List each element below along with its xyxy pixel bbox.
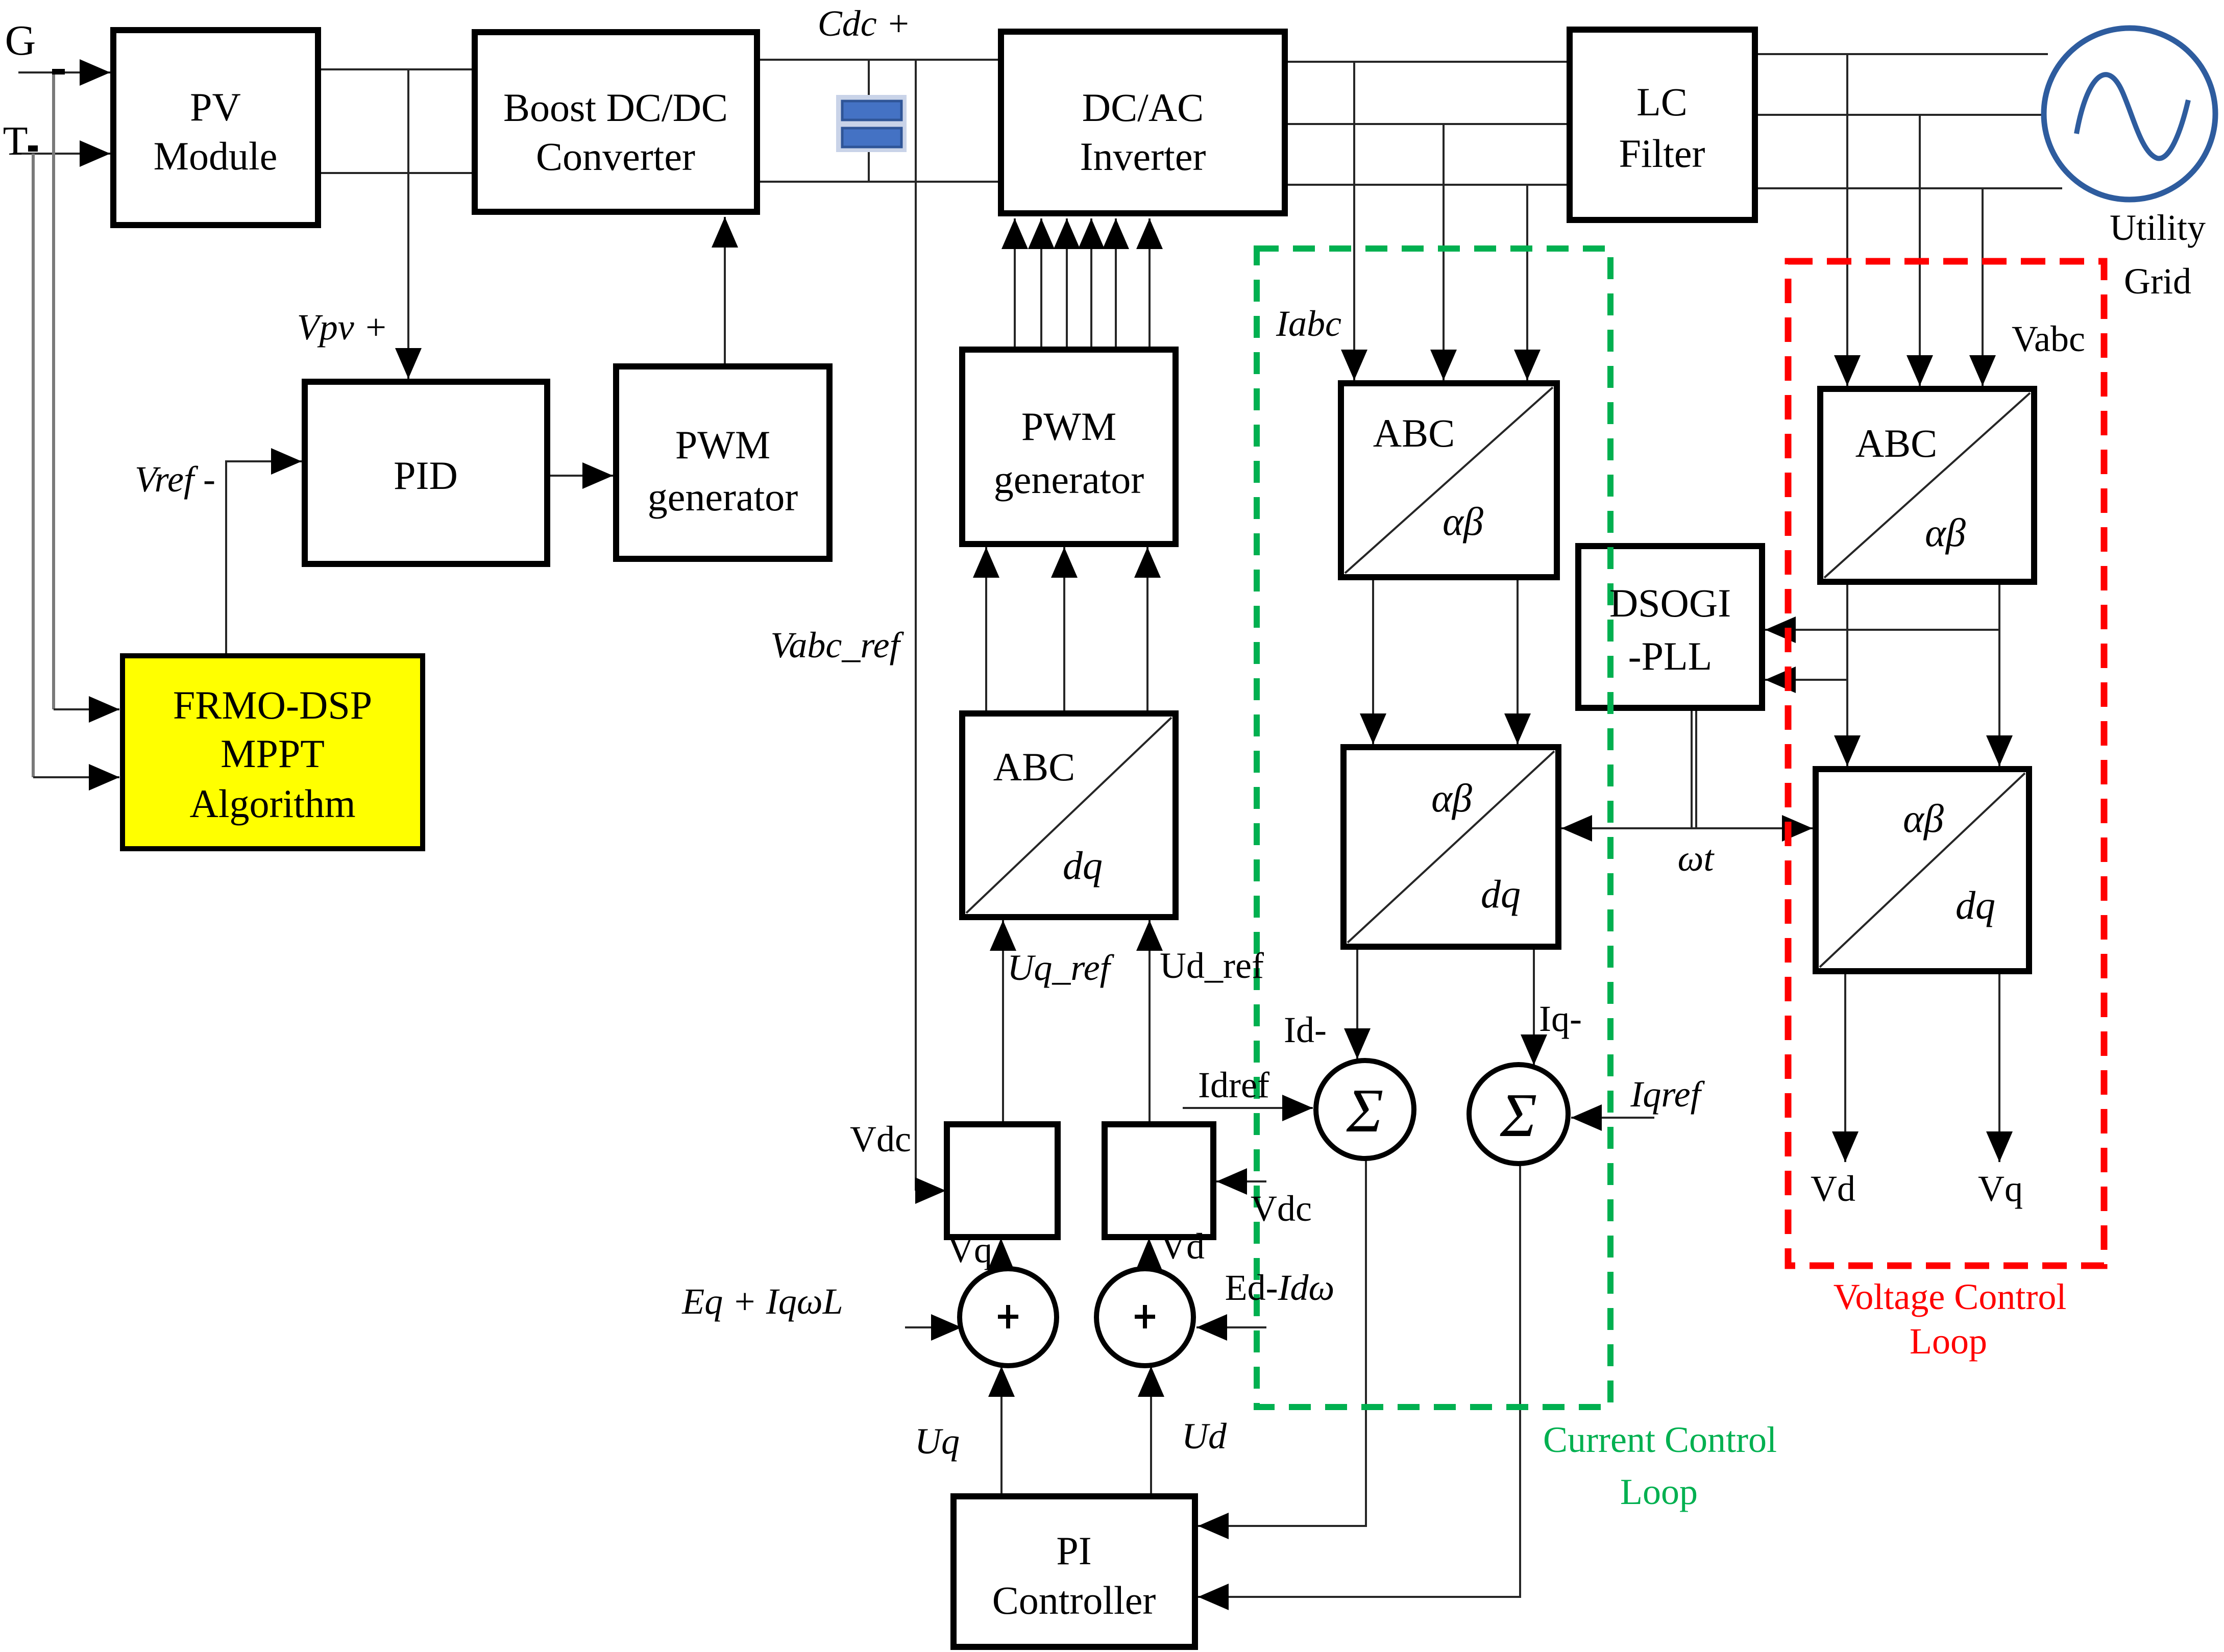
svg-text:LC: LC [1636, 80, 1688, 124]
svg-text:ABC: ABC [1855, 421, 1937, 465]
svg-text:Ud: Ud [1182, 1416, 1227, 1457]
svg-text:-PLL: -PLL [1628, 634, 1713, 678]
svg-text:Iqref: Iqref [1630, 1074, 1705, 1115]
svg-text:Converter: Converter [536, 134, 695, 179]
svg-text:Vq: Vq [947, 1229, 992, 1270]
svg-text:Loop: Loop [1910, 1321, 1987, 1362]
svg-text:Vq: Vq [1978, 1168, 2023, 1209]
svg-text:DC/AC: DC/AC [1082, 85, 1204, 130]
svg-text:αβ: αβ [1431, 776, 1472, 820]
svg-text:Eq + IqωL: Eq + IqωL [681, 1281, 843, 1322]
svg-text:Inverter: Inverter [1080, 134, 1206, 179]
svg-text:Vd: Vd [1811, 1168, 1855, 1209]
svg-text:Cdc +: Cdc + [818, 3, 911, 44]
svg-text:dq: dq [1956, 883, 1995, 927]
svg-text:FRMO-DSP: FRMO-DSP [173, 683, 372, 727]
svg-text:Boost DC/DC: Boost DC/DC [503, 85, 728, 130]
svg-text:DSOGI: DSOGI [1609, 581, 1731, 625]
svg-text:PV: PV [190, 85, 241, 129]
svg-text:Σ: Σ [1346, 1076, 1384, 1145]
svg-text:G: G [5, 17, 36, 64]
svg-text:Utility: Utility [2110, 207, 2206, 248]
svg-text:PWM: PWM [1021, 404, 1116, 449]
svg-text:Σ: Σ [1500, 1081, 1537, 1150]
svg-text:Vabc_ref: Vabc_ref [770, 625, 904, 665]
svg-text:PID: PID [394, 453, 458, 498]
svg-text:Uq: Uq [915, 1421, 960, 1462]
svg-text:ωt: ωt [1678, 838, 1715, 879]
svg-text:Ed-Idω: Ed-Idω [1225, 1267, 1335, 1308]
svg-text:Vabc: Vabc [2012, 318, 2085, 359]
svg-text:Vref -: Vref - [135, 459, 215, 500]
svg-text:Algorithm: Algorithm [190, 781, 356, 826]
svg-text:Id-: Id- [1284, 1009, 1327, 1050]
svg-text:αβ: αβ [1443, 499, 1483, 544]
svg-text:Current Control: Current Control [1543, 1419, 1777, 1460]
svg-text:dq: dq [1063, 843, 1103, 887]
svg-text:Controller: Controller [992, 1578, 1156, 1622]
svg-text:dq: dq [1481, 872, 1521, 916]
svg-text:PI: PI [1056, 1528, 1091, 1573]
svg-text:MPPT: MPPT [221, 731, 325, 776]
svg-text:T: T [3, 119, 28, 164]
svg-text:Loop: Loop [1620, 1471, 1698, 1512]
svg-text:PWM: PWM [675, 423, 770, 467]
svg-text:αβ: αβ [1925, 510, 1966, 555]
svg-text:Vdc: Vdc [1251, 1188, 1312, 1229]
svg-text:Iq-: Iq- [1539, 998, 1582, 1039]
svg-text:ABC: ABC [1373, 411, 1455, 455]
svg-text:Voltage Control: Voltage Control [1834, 1276, 2067, 1317]
svg-text:Ud_ref: Ud_ref [1160, 945, 1264, 986]
svg-text:Grid: Grid [2124, 261, 2191, 302]
svg-text:Iabc: Iabc [1276, 303, 1341, 344]
svg-text:generator: generator [648, 475, 798, 519]
svg-text:Module: Module [154, 134, 278, 178]
svg-text:Vpv +: Vpv + [297, 307, 388, 348]
svg-text:generator: generator [994, 457, 1144, 502]
svg-text:ABC: ABC [993, 745, 1075, 789]
svg-text:Vd: Vd [1160, 1226, 1205, 1267]
svg-text:αβ: αβ [1903, 796, 1944, 841]
svg-text:Vdc: Vdc [850, 1119, 911, 1160]
svg-text:Filter: Filter [1619, 131, 1705, 176]
svg-text:Idref: Idref [1198, 1065, 1269, 1105]
svg-text:Uq_ref: Uq_ref [1007, 947, 1114, 988]
